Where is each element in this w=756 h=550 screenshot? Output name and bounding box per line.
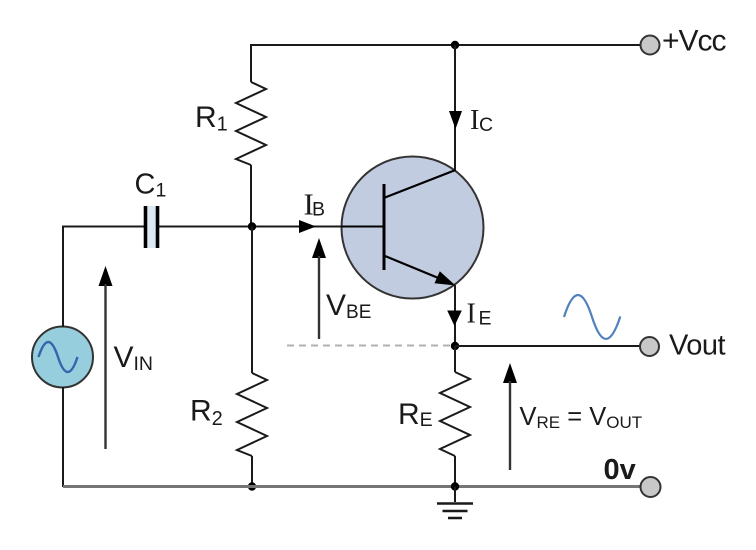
wire R2 bottom lead <box>251 456 253 487</box>
wire input right segment <box>159 226 384 228</box>
output sine wave <box>564 295 620 339</box>
capacitor C1 <box>148 206 156 248</box>
source Vin sine wave <box>39 342 78 372</box>
wire bottom rail (0v) <box>63 485 641 488</box>
node junction emitter / output <box>451 342 459 350</box>
transistor Q1 emitter stroke with arrow <box>385 256 442 280</box>
transistor Q1 collector stroke <box>385 170 456 198</box>
wire emitter vertical <box>454 285 456 346</box>
arrow VRE <box>503 363 517 383</box>
svg-text:+Vcc: +Vcc <box>662 25 727 58</box>
svg-text:R2: R2 <box>190 395 223 431</box>
svg-text:I: I <box>470 105 479 136</box>
svg-text:C: C <box>479 114 493 136</box>
wire output <box>455 345 640 347</box>
resistor R1 <box>236 82 266 165</box>
transistor Q1 body <box>342 157 484 299</box>
transistor Q1 base lead <box>341 226 384 228</box>
arrow IB <box>299 220 316 233</box>
wire left vertical bottom (source to 0v rail) <box>62 387 64 487</box>
arrow VBE <box>312 238 326 258</box>
source Vin circle <box>32 327 93 388</box>
svg-text:E: E <box>479 308 492 330</box>
wire RE bottom lead <box>454 456 456 487</box>
node junction top rail / collector <box>451 41 459 49</box>
terminal Vout <box>640 337 659 356</box>
svg-text:0v: 0v <box>604 454 636 486</box>
svg-text:Vout: Vout <box>669 330 725 362</box>
wire top rail (+Vcc) <box>251 44 640 46</box>
arrow IE <box>447 311 462 327</box>
wire left vertical top (input to source) <box>62 226 64 328</box>
wire R1 top lead <box>250 44 252 82</box>
node junction base / R1 / R2 <box>248 222 256 230</box>
svg-text:R1: R1 <box>195 101 228 136</box>
svg-text:RE: RE <box>398 398 433 431</box>
arrow VIN <box>99 266 113 286</box>
terminal 0v <box>641 477 661 497</box>
transistor Q1 base bar <box>383 184 386 270</box>
resistor RE <box>440 372 470 456</box>
wire RE top lead <box>454 346 456 372</box>
svg-text:C1: C1 <box>135 169 167 202</box>
svg-text:B: B <box>312 199 325 221</box>
resistor R2 <box>237 373 267 456</box>
dashed reference line <box>287 345 453 347</box>
wire input left segment <box>63 226 144 228</box>
svg-text:VRE = VOUT: VRE = VOUT <box>520 403 643 432</box>
wire R2 top lead <box>251 227 253 374</box>
wire collector vertical <box>454 45 456 170</box>
arrow IC <box>449 111 462 129</box>
ground symbol <box>454 487 456 502</box>
node junction RE / ground <box>451 482 459 490</box>
svg-text:VIN: VIN <box>114 341 154 375</box>
terminal +Vcc <box>641 36 660 55</box>
wire R1 bottom lead <box>250 165 252 227</box>
node junction R2 / 0v rail <box>248 482 256 490</box>
svg-text:VBE: VBE <box>326 289 371 323</box>
svg-text:I: I <box>467 299 476 330</box>
